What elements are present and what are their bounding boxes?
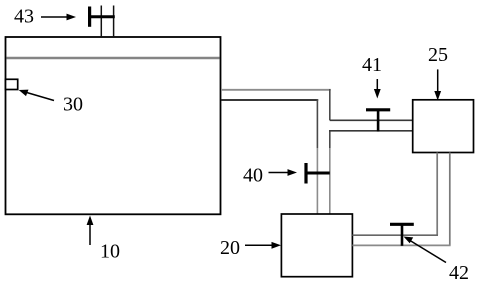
wire box 20 right pipe lower line	[352, 244, 450, 246]
wire branch pipe to box 25 lower line	[329, 130, 413, 132]
wire tank outlet pipe lower line	[221, 99, 318, 101]
arrow to tank 10	[87, 216, 94, 246]
arrow to box 25	[434, 69, 441, 100]
arrow to valve 43	[41, 14, 76, 21]
svg-text:10: 10	[100, 241, 120, 263]
tank liquid level line	[7, 57, 220, 60]
arrow to valve 41	[374, 79, 381, 99]
wire tank outlet pipe upper line	[221, 89, 331, 91]
sensor 30	[6, 79, 18, 89]
wire downpipe right line middle part	[329, 131, 331, 148]
svg-text:42: 42	[449, 262, 469, 281]
box 25	[413, 100, 474, 153]
svg-text:30: 30	[63, 94, 83, 116]
wire pipe stub of valve 43 (right line)	[113, 6, 115, 38]
wire box 20 right pipe upper line	[352, 234, 438, 236]
wire downpipe left line upper part	[316, 99, 318, 148]
svg-text:25: 25	[428, 44, 448, 66]
arrow to sensor 30	[19, 90, 54, 101]
valve 42	[390, 224, 414, 246]
arrow to box 20	[245, 242, 281, 249]
wire box 25 bottom pipe left line	[436, 153, 438, 236]
valve 40	[305, 163, 330, 184]
valve 43	[88, 7, 115, 27]
wire branch pipe to box 25 upper line	[330, 119, 413, 121]
wire box 25 bottom pipe right line	[449, 153, 451, 246]
wire pipe stub of valve 43 (left line)	[100, 6, 102, 38]
svg-text:43: 43	[14, 6, 34, 28]
valve 41	[366, 109, 390, 132]
svg-text:40: 40	[243, 165, 263, 187]
arrow to valve 40	[269, 169, 298, 176]
wire downpipe right line lower part	[329, 148, 331, 214]
wire downpipe right line upper part	[329, 89, 331, 120]
box 20	[281, 214, 352, 277]
tank 10	[6, 37, 221, 214]
arrow to valve 42	[404, 237, 447, 263]
svg-text:20: 20	[220, 237, 240, 259]
svg-text:41: 41	[362, 54, 382, 76]
wire downpipe left line lower part	[316, 148, 318, 214]
